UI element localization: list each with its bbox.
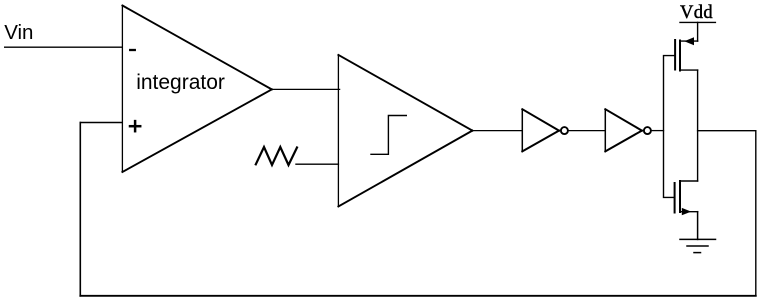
schmitt step symbol	[371, 116, 406, 155]
wire Vin input	[5, 46, 123, 48]
wire plus input	[80, 122, 122, 124]
comparator U2	[338, 55, 472, 207]
wire drain bus	[697, 70, 699, 181]
M2 source arrow points away from channel	[682, 208, 691, 215]
transistor M1 PMOS	[675, 37, 698, 70]
inverter U4 bubble	[644, 127, 651, 134]
M1 gate bar	[674, 40, 676, 70]
M2 source leg	[680, 211, 698, 213]
wire U4 output to gate bus	[652, 130, 664, 132]
svg-text:Vin: Vin	[4, 21, 33, 44]
M1 source arrow points into channel	[684, 37, 694, 45]
inverter U4	[605, 109, 642, 151]
inverter U3 bubble	[561, 127, 568, 134]
transistor M2 NMOS	[675, 181, 698, 215]
power Vdd	[680, 3, 715, 41]
svg-text:integrator: integrator	[136, 71, 225, 94]
wire gate bus	[664, 56, 676, 198]
wire integrator output	[272, 88, 340, 90]
wire output tap	[698, 130, 756, 132]
label plus input	[130, 121, 140, 131]
wire ramp input	[296, 163, 338, 165]
op-amp U1 integrator	[122, 6, 271, 173]
wire U3 to U4	[569, 130, 606, 132]
M2 channel bar	[679, 181, 681, 212]
triangle-wave source symbol	[256, 147, 297, 165]
M1 channel bar	[679, 41, 681, 71]
M1 drain leg	[680, 69, 698, 71]
svg-text:Vdd: Vdd	[680, 3, 713, 23]
wire feedback right	[755, 131, 757, 296]
ground	[680, 212, 716, 253]
wire comparator output	[472, 130, 522, 132]
M1 source leg	[680, 40, 698, 42]
wire feedback bottom	[80, 295, 756, 297]
M2 drain leg	[680, 180, 698, 182]
inverter U3	[522, 109, 559, 151]
M2 gate bar	[674, 183, 676, 213]
wire feedback left	[79, 123, 81, 296]
label minus input	[130, 49, 135, 51]
